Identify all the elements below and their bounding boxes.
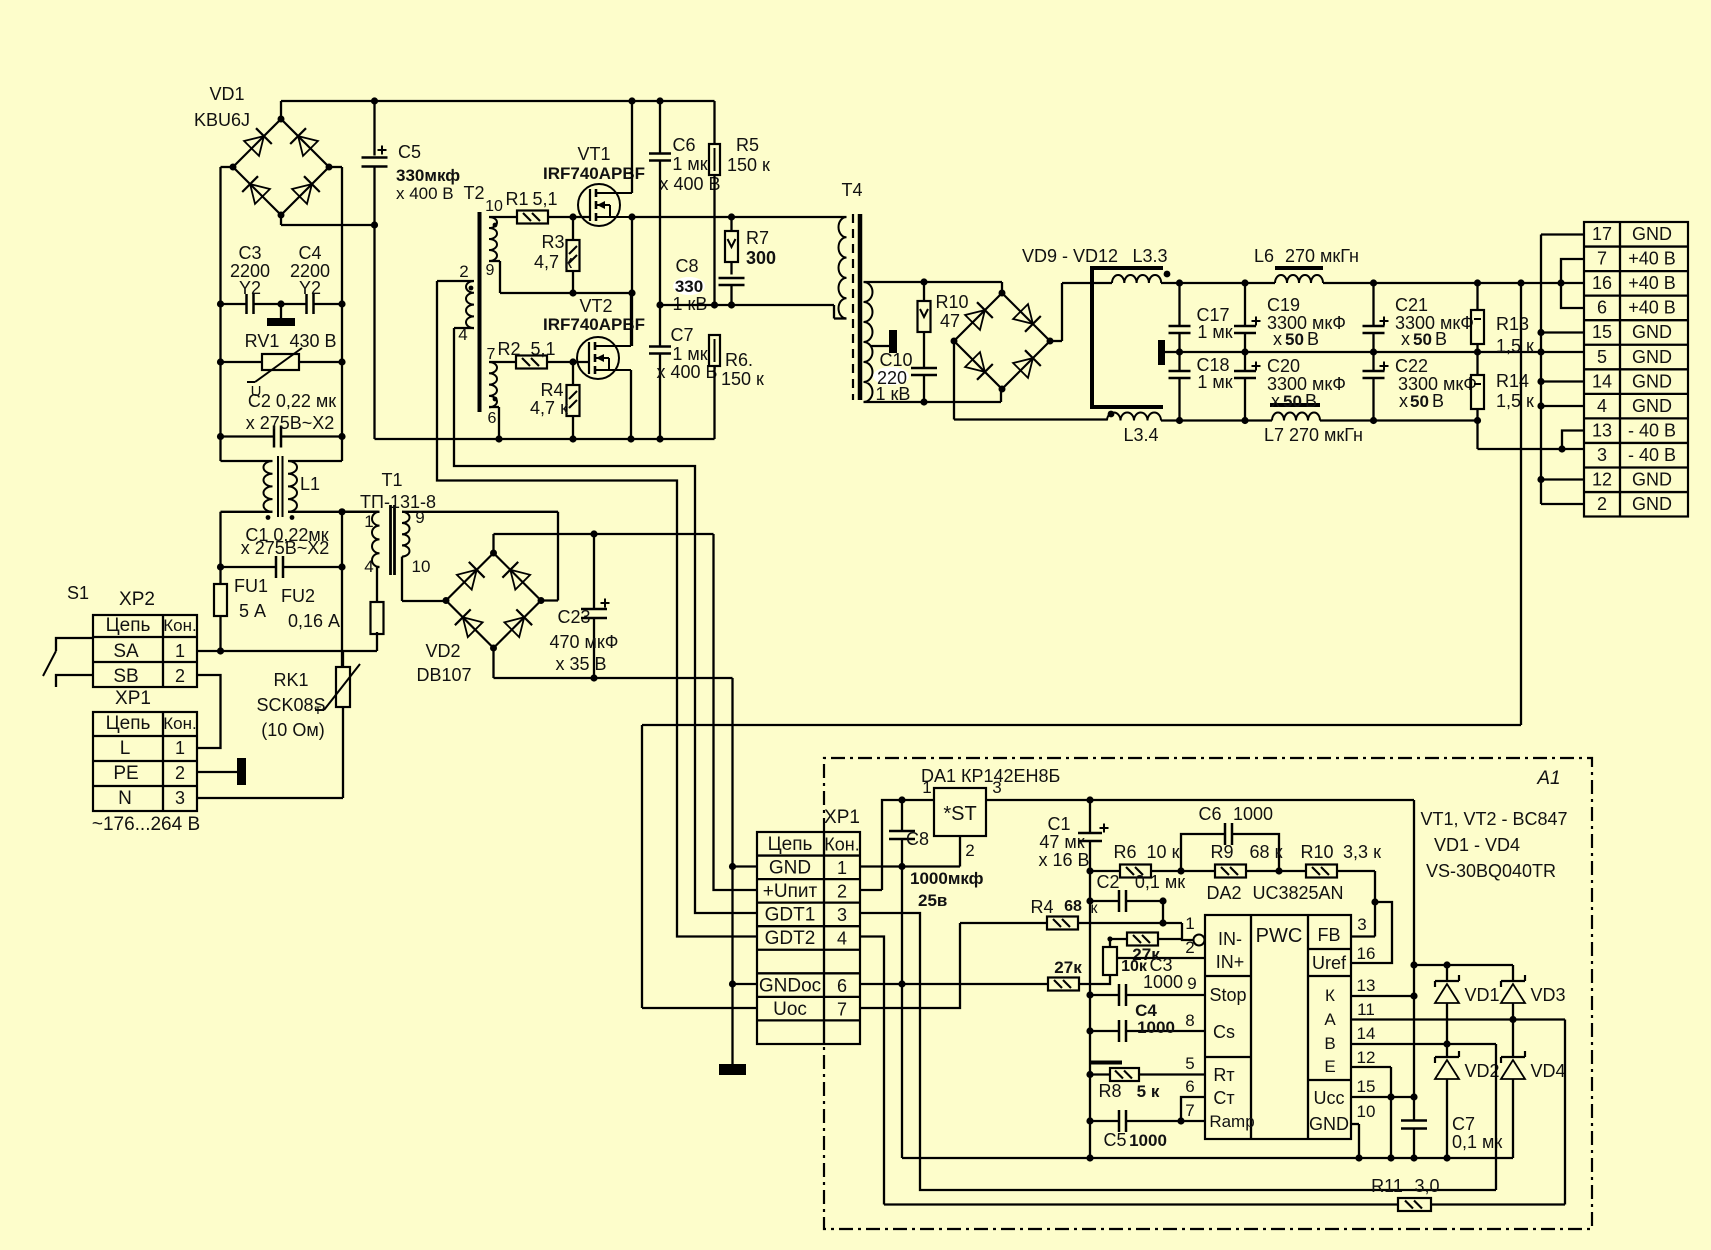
svg-text:C8: C8 — [906, 829, 929, 849]
svg-text:R10: R10 — [1300, 842, 1333, 862]
svg-text:0,1 мк: 0,1 мк — [1135, 872, 1185, 892]
svg-text:х: х — [1271, 391, 1280, 411]
svg-text:C5: C5 — [1103, 1130, 1126, 1150]
capacitor C2 0.1uF — [1090, 872, 1185, 912]
wire: pin12 E to GND — [1351, 1067, 1395, 1162]
wire: output GND bus — [1537, 235, 1584, 505]
svg-text:L3.3: L3.3 — [1132, 246, 1167, 266]
wire: rectifier negative to C5 — [281, 215, 378, 229]
wire: +40 jumper pins 7/16/6 — [1561, 259, 1584, 308]
wire: A1 GND net vertical — [898, 867, 905, 1159]
svg-text:R4: R4 — [1030, 897, 1053, 917]
svg-text:C21: C21 — [1395, 295, 1428, 315]
svg-text:KBU6J: KBU6J — [194, 110, 250, 130]
svg-text:4: 4 — [1597, 396, 1607, 416]
svg-text:VD1: VD1 — [1464, 985, 1499, 1005]
svg-text:2: 2 — [1597, 494, 1607, 514]
svg-text:XP2: XP2 — [119, 589, 155, 610]
svg-text:6: 6 — [837, 976, 847, 996]
svg-text:GND: GND — [1632, 396, 1672, 416]
capacitor C17 1uF — [1169, 283, 1233, 352]
svg-text:1 кВ: 1 кВ — [876, 384, 911, 404]
svg-text:1000: 1000 — [1129, 1131, 1167, 1150]
svg-text:GND: GND — [769, 858, 811, 879]
diode bridge VD1 KBU6J — [194, 84, 333, 219]
svg-text:C10: C10 — [879, 350, 912, 370]
svg-text:68: 68 — [1064, 898, 1082, 915]
capacitor C10 220 1kV — [873, 350, 937, 404]
svg-text:150 к: 150 к — [721, 369, 764, 389]
svg-text:GND: GND — [1632, 322, 1672, 342]
svg-text:DB107: DB107 — [416, 665, 471, 685]
wire: VT2 gate node — [547, 358, 589, 365]
svg-text:VD4: VD4 — [1530, 1061, 1565, 1081]
svg-text:XP1: XP1 — [115, 688, 151, 709]
wire: DA1 out to +12 rail — [986, 796, 1418, 1158]
svg-text:1000: 1000 — [1137, 1018, 1175, 1037]
svg-text:PWC: PWC — [1256, 925, 1303, 947]
svg-text:1 мк: 1 мк — [1197, 322, 1232, 342]
resistor R4 4.7k — [530, 362, 579, 439]
svg-text:14: 14 — [1357, 1024, 1376, 1043]
svg-text:C2 0,22 мк: C2 0,22 мк — [248, 391, 336, 411]
svg-text:1: 1 — [1185, 914, 1194, 933]
wire: +40 rail after choke — [1161, 279, 1249, 286]
varistor RV1 430V — [221, 331, 343, 400]
svg-text:1000: 1000 — [1233, 804, 1273, 824]
svg-text:9: 9 — [415, 508, 424, 527]
svg-text:(10 Ом): (10 Ом) — [261, 720, 324, 740]
svg-text:1000: 1000 — [1143, 972, 1183, 992]
svg-text:В: В — [1307, 329, 1319, 349]
wire: +Upit riser to XP1 pin2 — [714, 534, 758, 890]
svg-text:GND: GND — [1632, 494, 1672, 514]
svg-text:6: 6 — [1597, 298, 1607, 318]
svg-text:6: 6 — [1185, 1077, 1194, 1096]
svg-text:L3.4: L3.4 — [1123, 425, 1158, 445]
svg-text:PE: PE — [113, 763, 138, 784]
svg-text:14: 14 — [1592, 371, 1612, 391]
svg-text:x 400 В: x 400 В — [659, 174, 720, 194]
wire: pin9 to VD2 east — [541, 512, 558, 601]
svg-text:Цепь: Цепь — [106, 615, 151, 636]
svg-text:R3: R3 — [541, 232, 564, 252]
svg-text:x 35 В: x 35 В — [555, 654, 606, 674]
resistor R1 5.1 — [505, 189, 557, 224]
resistor R6 150k — [709, 335, 764, 439]
capacitor C2 0.22uF X2 — [221, 391, 343, 448]
svg-text:GND: GND — [1632, 371, 1672, 391]
diode VD2 schottky — [1435, 1044, 1500, 1158]
resistor R3 4.7k — [534, 217, 579, 293]
resistor 27k upper — [1107, 933, 1182, 965]
wire: IN+ line — [1117, 957, 1205, 959]
capacitor C21 3300uF 50V — [1363, 283, 1474, 352]
svg-text:R5: R5 — [736, 135, 759, 155]
wire: A1 GND bottom rail — [902, 1154, 1513, 1161]
wire: +310V top rail — [281, 97, 715, 119]
svg-text:1000мкф: 1000мкф — [910, 869, 984, 888]
svg-text:C3: C3 — [238, 243, 261, 263]
svg-text:C6: C6 — [672, 135, 695, 155]
svg-text:R4: R4 — [540, 380, 563, 400]
svg-text:R14: R14 — [1496, 371, 1529, 391]
svg-text:Цепь: Цепь — [768, 834, 813, 855]
svg-text:300: 300 — [746, 248, 776, 268]
wire: T2 pin9 node to VT2 drain rail — [500, 213, 636, 346]
svg-text:17: 17 — [1592, 224, 1612, 244]
svg-text:FU1: FU1 — [234, 576, 268, 596]
svg-text:х 275В~Х2: х 275В~Х2 — [246, 413, 335, 433]
pin labels DA2 left — [1185, 914, 1196, 1120]
svg-text:Uref: Uref — [1312, 953, 1347, 973]
svg-text:13: 13 — [1592, 420, 1612, 440]
svg-text:DA1 КР142ЕН8Б: DA1 КР142ЕН8Б — [921, 766, 1060, 786]
svg-text:10: 10 — [485, 198, 503, 215]
svg-text:13: 13 — [1357, 976, 1376, 995]
svg-text:+40 В: +40 В — [1628, 298, 1676, 318]
resistor R14 1.5k — [1471, 352, 1534, 421]
switch S1 — [43, 583, 93, 687]
svg-text:9: 9 — [486, 262, 495, 279]
svg-text:В: В — [1432, 391, 1444, 411]
svg-text:A1: A1 — [1536, 768, 1560, 789]
svg-text:C22: C22 — [1395, 356, 1428, 376]
svg-text:430 В: 430 В — [289, 331, 336, 351]
svg-text:6: 6 — [488, 410, 497, 427]
diode VD3 schottky — [1501, 965, 1566, 1020]
svg-text:C7: C7 — [670, 325, 693, 345]
svg-text:50: 50 — [1413, 330, 1432, 349]
svg-text:Цепь: Цепь — [106, 713, 151, 734]
svg-text:R13: R13 — [1496, 314, 1529, 334]
svg-text:S1: S1 — [67, 583, 89, 603]
svg-text:Stop: Stop — [1209, 985, 1246, 1005]
wire: L line L1 to C1/FU1 — [217, 512, 224, 584]
wire: pin10 GND — [1351, 1124, 1363, 1162]
wire: -40 to pins 13/3 — [1478, 421, 1585, 453]
svg-text:R2: R2 — [497, 339, 520, 359]
svg-text:15: 15 — [1592, 322, 1612, 342]
svg-text:Кон.: Кон. — [163, 714, 196, 733]
wire: GDT1 return line — [860, 913, 1496, 1190]
svg-text:1,5 к: 1,5 к — [1496, 336, 1534, 356]
svg-text:9: 9 — [1187, 974, 1196, 993]
svg-text:- 40 В: - 40 В — [1628, 445, 1676, 465]
svg-text:IN-: IN- — [1218, 929, 1242, 949]
svg-text:R11: R11 — [1371, 1176, 1403, 1196]
wire: pin14 OutB to GDT1 riser — [1351, 1040, 1496, 1190]
wire: -40 rail after choke — [1161, 417, 1272, 424]
resistor R4 68k — [1030, 897, 1098, 930]
svg-text:В: В — [1435, 329, 1447, 349]
svg-text:R7: R7 — [746, 228, 769, 248]
svg-text:8: 8 — [1185, 1011, 1194, 1030]
transistor VT2 IRF740APBF — [543, 296, 645, 379]
svg-text:3,3 к: 3,3 к — [1343, 842, 1381, 862]
thermistor RK1 SCK08S — [256, 651, 360, 798]
svg-text:UC3825AN: UC3825AN — [1252, 883, 1343, 903]
svg-text:IRF740APBF: IRF740APBF — [543, 315, 645, 334]
wire: mains L vertical (left) — [217, 167, 233, 461]
wire: +12 to VD1/VD3 top — [1414, 961, 1513, 968]
capacitor C4 2200 Y2 — [277, 243, 342, 314]
svg-text:VT2: VT2 — [579, 296, 612, 316]
svg-text:3,0: 3,0 — [1414, 1176, 1439, 1196]
resistor R11 3.0 — [884, 1176, 1565, 1211]
svg-text:7: 7 — [837, 999, 847, 1019]
capacitor C8 330 1kV — [673, 256, 745, 314]
svg-text:Cт: Cт — [1213, 1088, 1234, 1108]
svg-text:R6: R6 — [1113, 842, 1136, 862]
svg-text:4: 4 — [837, 929, 847, 949]
svg-text:5,1: 5,1 — [530, 339, 555, 359]
svg-text:R9: R9 — [1210, 842, 1233, 862]
svg-text:4,7 к: 4,7 к — [534, 252, 572, 272]
svg-text:5 А: 5 А — [239, 601, 266, 621]
svg-text:VD3: VD3 — [1530, 985, 1565, 1005]
wire: VT2 drain lead — [630, 293, 632, 346]
svg-text:2: 2 — [1185, 938, 1194, 957]
svg-text:L7 270 мкГн: L7 270 мкГн — [1264, 425, 1363, 445]
svg-text:GND: GND — [1632, 224, 1672, 244]
svg-text:SB: SB — [113, 666, 138, 687]
wire: switched L (SA) line — [197, 650, 377, 652]
ground: output mid chassis bar — [1158, 340, 1180, 365]
svg-text:х: х — [1273, 329, 1282, 349]
wire: output GND mid rail — [1176, 348, 1584, 355]
svg-text:GNDос: GNDос — [759, 975, 821, 996]
svg-text:1: 1 — [364, 512, 373, 531]
capacitor C20 3300uF 50V — [1234, 352, 1346, 421]
svg-text:50: 50 — [1285, 330, 1304, 349]
svg-text:+40 В: +40 В — [1628, 273, 1676, 293]
svg-text:Cs: Cs — [1213, 1022, 1235, 1042]
svg-text:5 к: 5 к — [1137, 1082, 1160, 1101]
svg-text:1 мк: 1 мк — [1197, 372, 1232, 392]
svg-text:16: 16 — [1592, 273, 1612, 293]
svg-text:GDT2: GDT2 — [765, 928, 816, 949]
svg-text:1 мк: 1 мк — [672, 344, 707, 364]
svg-text:0,16 А: 0,16 А — [288, 611, 340, 631]
svg-text:х 275В~Х2: х 275В~Х2 — [241, 538, 330, 558]
svg-text:Ucc: Ucc — [1314, 1088, 1345, 1108]
ground: PE chassis bar — [197, 758, 246, 785]
svg-text:5,1: 5,1 — [532, 189, 557, 209]
svg-text:50: 50 — [1410, 392, 1429, 411]
svg-text:25в: 25в — [918, 891, 947, 910]
capacitor C6 1000 — [1181, 804, 1283, 875]
resistor R6 10k — [1090, 842, 1185, 878]
svg-text:GND: GND — [1309, 1114, 1349, 1134]
svg-text:10: 10 — [1357, 1102, 1376, 1121]
svg-text:А: А — [1324, 1010, 1336, 1029]
resistor R10 3.3k — [1279, 842, 1381, 878]
svg-text:VD1: VD1 — [209, 84, 244, 104]
wire: pin13 K to +12 — [1351, 995, 1414, 997]
wire: +Upit to DA1 pin1 — [860, 796, 934, 890]
svg-text:FB: FB — [1317, 925, 1340, 945]
svg-text:2: 2 — [175, 666, 185, 686]
pin labels DA2 right — [1357, 915, 1376, 1121]
wire: DA1 pin2 to GND — [860, 836, 960, 870]
svg-text:2: 2 — [965, 841, 974, 860]
diode VD1 schottky — [1435, 965, 1500, 1044]
wire: N from XP1 to RK1 — [197, 797, 343, 799]
svg-text:150 к: 150 к — [727, 155, 770, 175]
svg-text:47: 47 — [940, 311, 960, 331]
transformer T2 gate drive — [437, 183, 517, 427]
capacitor C22 3300uF 50V — [1363, 352, 1477, 421]
capacitor C7 0.1uF — [1401, 1114, 1502, 1152]
svg-text:C4: C4 — [298, 243, 321, 263]
svg-text:1: 1 — [175, 738, 185, 758]
svg-text:В: В — [1324, 1034, 1335, 1053]
svg-text:470 мкФ: 470 мкФ — [550, 632, 619, 652]
svg-text:3: 3 — [837, 905, 847, 925]
svg-text:т: т — [315, 701, 322, 717]
transistor VT1 IRF740APBF — [543, 144, 645, 226]
svg-text:IRF740APBF: IRF740APBF — [543, 164, 645, 183]
svg-text:3: 3 — [175, 788, 185, 808]
svg-text:T4: T4 — [841, 180, 862, 200]
svg-text:Uос: Uос — [773, 999, 807, 1020]
ground: control GND chassis bar — [719, 1064, 746, 1075]
module A1 dashed border — [824, 758, 1592, 1229]
svg-text:L6: L6 — [1254, 246, 1274, 266]
wire: GDT2 from T2 pin2 — [437, 281, 757, 937]
svg-text:270 мкГн: 270 мкГн — [1285, 246, 1359, 266]
wire: Uoc feedback from +40 — [642, 283, 1521, 1008]
svg-text:10 к: 10 к — [1147, 842, 1180, 862]
svg-text:1: 1 — [175, 641, 185, 661]
svg-text:3: 3 — [1357, 915, 1366, 934]
svg-text:VD2: VD2 — [425, 641, 460, 661]
svg-text:3: 3 — [1597, 445, 1607, 465]
svg-text:1,5 к: 1,5 к — [1496, 391, 1534, 411]
wire: bottom negative rail — [375, 225, 715, 443]
svg-text:4,7 к: 4,7 к — [530, 398, 568, 418]
svg-text:L1: L1 — [300, 474, 320, 494]
svg-text:12: 12 — [1592, 470, 1612, 490]
svg-text:FU2: FU2 — [281, 586, 315, 606]
svg-text:RK1: RK1 — [273, 670, 308, 690]
wire: mains N vertical (right) — [329, 167, 346, 461]
wire: switch-node mid rail to T4 — [632, 213, 847, 220]
svg-text:VD1 - VD4: VD1 - VD4 — [1434, 835, 1520, 855]
svg-text:C20: C20 — [1267, 356, 1300, 376]
capacitor C1 47uF 16V — [1038, 800, 1108, 1158]
wire: T4 secondary top to bridge — [864, 278, 1003, 293]
svg-text:к: к — [1091, 900, 1099, 917]
capacitor C3 2200 Y2 — [221, 243, 282, 314]
svg-text:C2: C2 — [1096, 872, 1119, 892]
svg-text:C5: C5 — [398, 142, 421, 162]
connector XP1 mains table — [92, 688, 200, 835]
resistor 10k vertical — [1103, 947, 1148, 975]
wire: VD9 bridge plus to choke — [1050, 283, 1112, 341]
connector output table — [1584, 222, 1688, 517]
inductor L3.3 with core — [1090, 246, 1170, 407]
capacitor C18 1uF — [1169, 352, 1233, 421]
svg-text:x: x — [1401, 329, 1410, 349]
svg-text:R6.: R6. — [725, 350, 753, 370]
wire: pin11 OutA to R11 riser — [1351, 1016, 1565, 1205]
svg-text:R1: R1 — [505, 189, 528, 209]
resistor R7 300 — [725, 217, 776, 275]
svg-text:Y2: Y2 — [299, 278, 321, 298]
svg-text:XP1: XP1 — [824, 807, 860, 828]
ground: C3/C4 midpoint chassis bar — [267, 304, 295, 326]
svg-text:GND: GND — [1632, 347, 1672, 367]
inductor L6 270uH — [1245, 246, 1584, 287]
svg-text:GND: GND — [1632, 470, 1672, 490]
svg-text:15: 15 — [1357, 1077, 1376, 1096]
svg-text:Ramp: Ramp — [1209, 1112, 1254, 1131]
IC DA2 UC3825AN — [1194, 883, 1352, 1139]
diode bridge VD2 DB107 — [416, 550, 544, 686]
ground: T4 screen chassis bar — [871, 330, 897, 353]
svg-text:*ST: *ST — [943, 803, 976, 825]
IC DA1 KR142EN8B — [921, 766, 1060, 860]
svg-text:N: N — [118, 788, 132, 809]
svg-text:DA2: DA2 — [1206, 883, 1241, 903]
capacitor C1 0.22uF X2 — [221, 525, 343, 578]
resistor R13 1.5k — [1471, 283, 1534, 356]
svg-text:11: 11 — [1357, 1000, 1375, 1019]
svg-text:7: 7 — [1597, 249, 1607, 269]
svg-text:2: 2 — [175, 763, 185, 783]
svg-text:4: 4 — [364, 557, 373, 576]
svg-text:12: 12 — [1357, 1048, 1376, 1067]
svg-text:1: 1 — [837, 858, 847, 878]
svg-text:47 мк: 47 мк — [1039, 832, 1084, 852]
capacitor C8 1000uF 25V — [889, 800, 984, 910]
capacitor C5 1000 — [1090, 1097, 1205, 1150]
wire: VT1 drain to +rail — [631, 101, 633, 193]
wire: GND riser to XP1 pin1/pin6 — [729, 678, 757, 1064]
connector XP2 table — [93, 589, 197, 687]
svg-text:VT1: VT1 — [577, 144, 610, 164]
svg-text:C23: C23 — [557, 607, 590, 627]
fuse FU2 0.16A — [281, 567, 384, 651]
svg-text:C6: C6 — [1198, 804, 1221, 824]
capacitor C19 3300uF 50V — [1234, 283, 1346, 352]
wire: XP2 SB to XP1 L — [197, 675, 221, 748]
svg-text:- 40 В: - 40 В — [1628, 420, 1676, 440]
wire: Uoc into XP1 pin7 — [642, 1007, 757, 1009]
capacitor C23 470uF 35V — [550, 534, 619, 678]
inductor L1 common-mode choke — [221, 456, 343, 520]
svg-text:C8: C8 — [675, 256, 698, 276]
inductor L7 270uH — [1264, 405, 1481, 445]
wire: GDT2 riser — [860, 937, 884, 1205]
svg-text:68 к: 68 к — [1250, 842, 1283, 862]
svg-text:R8: R8 — [1098, 1081, 1121, 1101]
svg-text:К: К — [1325, 986, 1335, 1005]
svg-text:7: 7 — [487, 346, 496, 363]
svg-text:T1: T1 — [381, 470, 402, 490]
wire: VD9 bridge minus to -40 rail — [954, 341, 1107, 420]
connector XP1 control table — [757, 807, 860, 1044]
svg-text:x 400 В: x 400 В — [396, 184, 454, 203]
svg-text:2: 2 — [459, 262, 468, 281]
wire: GDT1 from T2 pin4 — [454, 328, 757, 913]
svg-text:5: 5 — [1597, 347, 1607, 367]
svg-text:GDT1: GDT1 — [765, 905, 816, 926]
svg-text:R10: R10 — [935, 292, 968, 312]
svg-text:50: 50 — [1283, 392, 1302, 411]
